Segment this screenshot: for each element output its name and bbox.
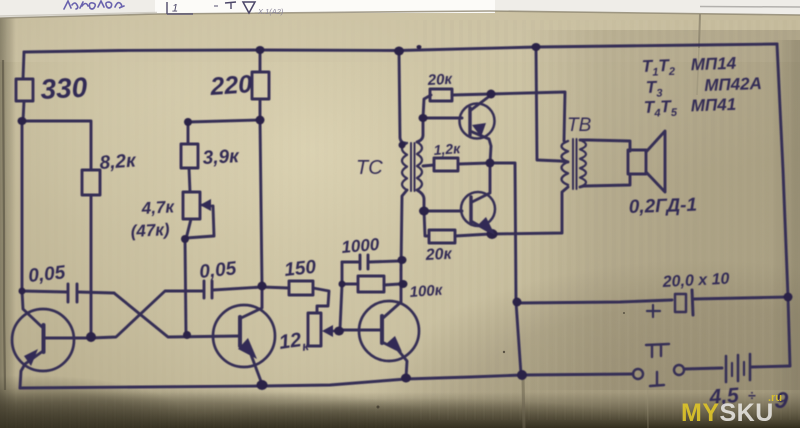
svg-text:0,05: 0,05 <box>198 258 237 283</box>
svg-text:20,0 х 10: 20,0 х 10 <box>661 271 730 292</box>
svg-text:0,2ГД-1: 0,2ГД-1 <box>628 195 697 218</box>
svg-text:20к: 20к <box>426 71 454 89</box>
svg-text:150: 150 <box>283 257 317 281</box>
svg-text:3,9к: 3,9к <box>202 146 240 169</box>
svg-text:100к: 100к <box>409 282 444 301</box>
svg-text:20к: 20к <box>424 246 453 264</box>
svg-text:ТС: ТС <box>356 157 383 179</box>
svg-text:.ru: .ru <box>768 392 782 404</box>
svg-text:220: 220 <box>208 70 253 101</box>
svg-text:0,05: 0,05 <box>27 262 66 287</box>
svg-text:1: 1 <box>172 3 178 15</box>
svg-text:330: 330 <box>40 72 89 105</box>
svg-text:ТВ: ТВ <box>567 115 592 136</box>
svg-text:MYSKU: MYSKU <box>681 399 774 427</box>
svg-text:(47к): (47к) <box>130 220 170 241</box>
svg-text:1000: 1000 <box>341 235 381 257</box>
svg-text:8,2к: 8,2к <box>99 150 138 174</box>
svg-text:X.1(A2): X.1(A2) <box>257 7 284 16</box>
svg-text:1,2к: 1,2к <box>433 140 462 158</box>
svg-text:4,7к: 4,7к <box>140 197 176 218</box>
